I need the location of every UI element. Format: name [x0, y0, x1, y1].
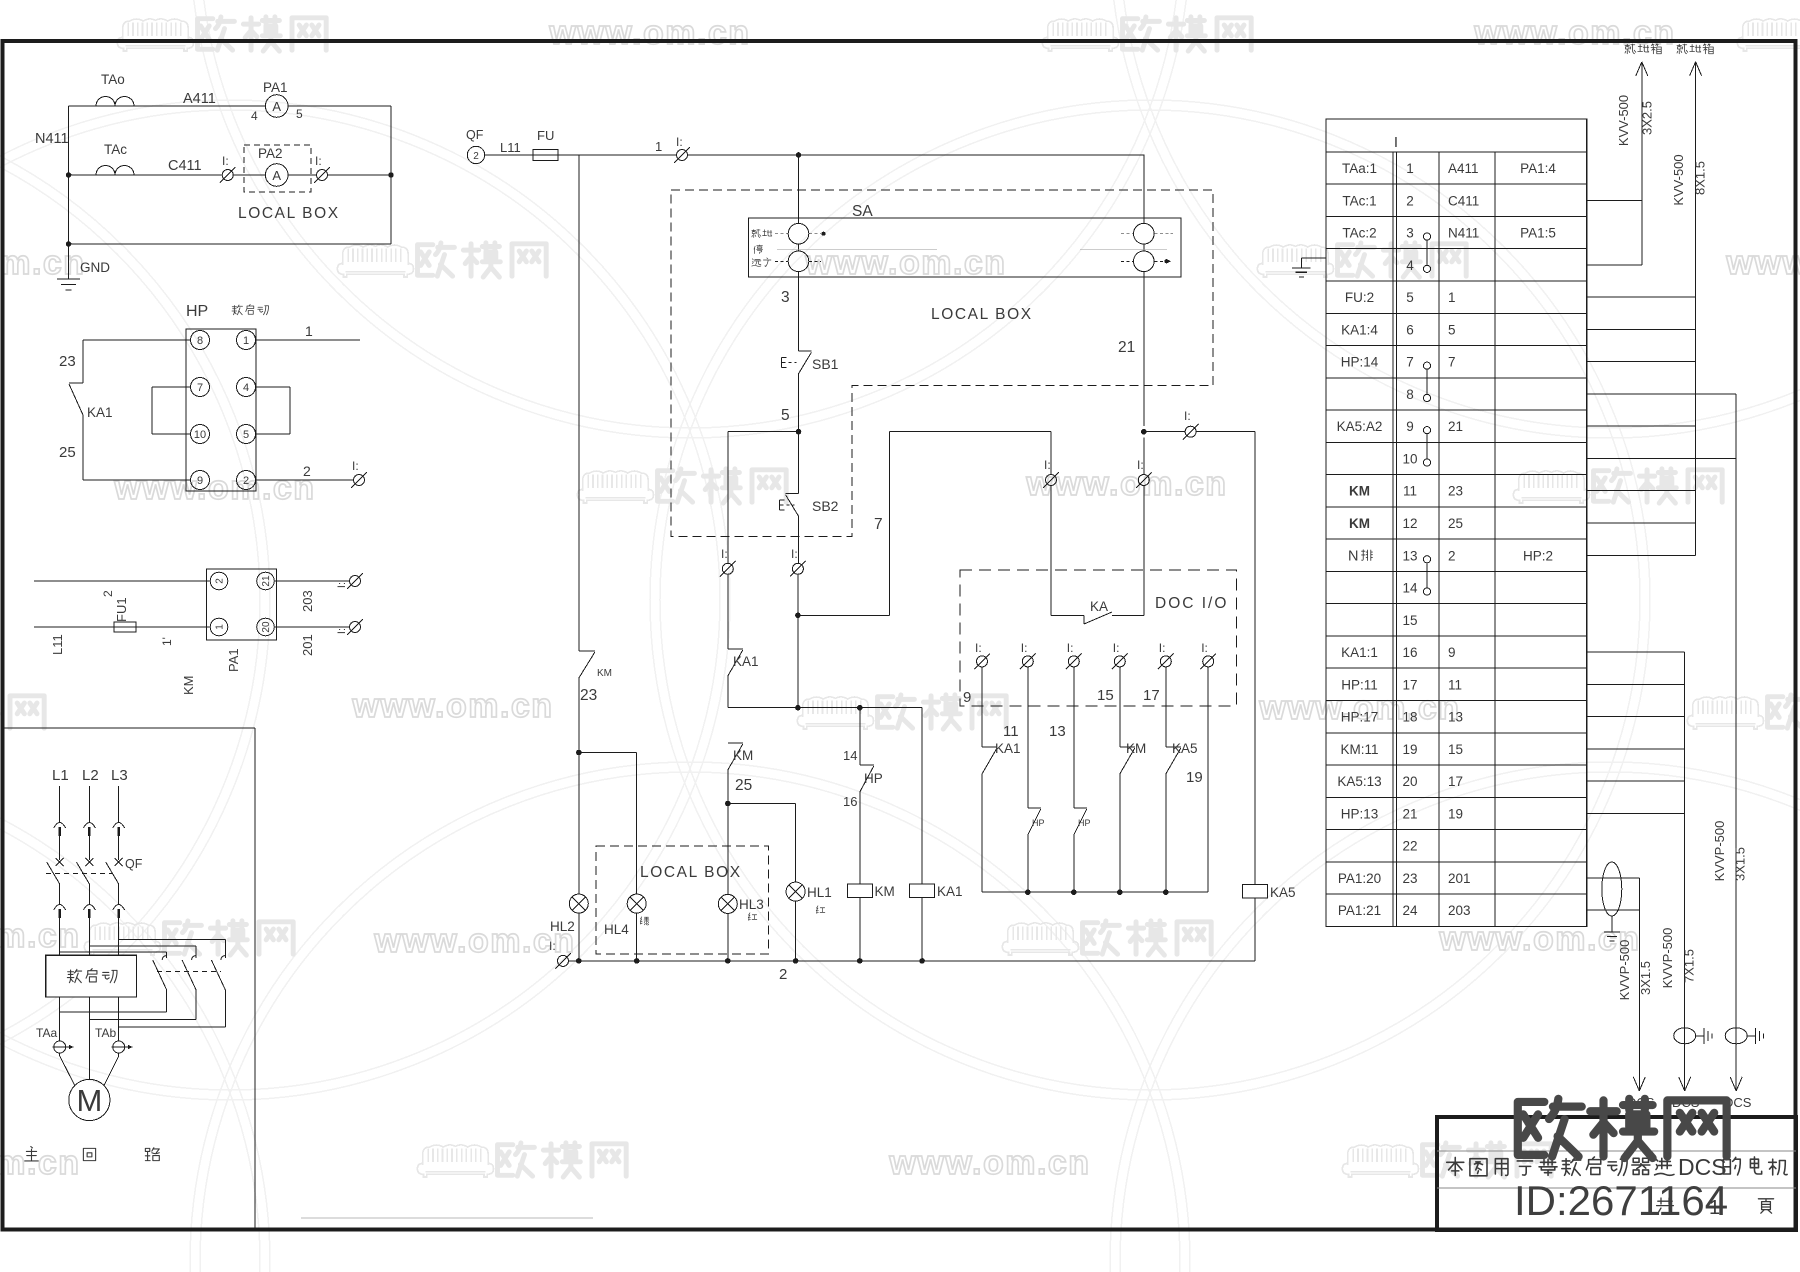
svg-text:KA1: KA1 [87, 405, 113, 420]
svg-text:4: 4 [251, 109, 258, 123]
wire A411 top [69, 105, 96, 107]
svg-text:KA1: KA1 [937, 884, 963, 899]
svg-text:12: 12 [1402, 516, 1417, 531]
svg-text:23: 23 [1448, 484, 1463, 499]
svg-text:8: 8 [197, 335, 203, 347]
svg-text:PA1:5: PA1:5 [1520, 226, 1556, 241]
svg-text:KVVP-500: KVVP-500 [1660, 928, 1675, 989]
SA labels [752, 229, 761, 237]
svg-text:HL1: HL1 [807, 885, 832, 900]
table ground [1301, 257, 1326, 259]
table row 9 [1326, 441, 1587, 443]
svg-text:QF: QF [466, 128, 484, 142]
svg-text:N411: N411 [35, 131, 69, 147]
pin 8 [191, 331, 210, 350]
svg-text:8: 8 [1406, 387, 1414, 402]
col1 KA1 contact [981, 667, 983, 747]
svg-text:15: 15 [1448, 742, 1463, 757]
svg-text:I:: I: [721, 547, 728, 561]
svg-text:18: 18 [1402, 710, 1417, 725]
svg-text:www.om.cn: www.om.cn [373, 922, 575, 960]
svg-text:23: 23 [580, 687, 597, 704]
table row 4 [1326, 280, 1587, 282]
col4 KM contact [1119, 667, 1121, 747]
svg-text:I:: I: [222, 154, 229, 168]
svg-text:11: 11 [1403, 484, 1417, 499]
KA5 branch vertical [1254, 432, 1256, 885]
DOC I/O dashed box [960, 570, 1236, 706]
SA left circles [798, 155, 800, 223]
table row 1 [1326, 183, 1587, 185]
svg-text:HP:2: HP:2 [1523, 548, 1553, 563]
terminal to KA5 branch [1144, 431, 1185, 433]
col3 HP contact [1073, 667, 1075, 808]
terminal x798 [790, 561, 806, 577]
wire7 branch right [797, 574, 799, 615]
svg-text:KM: KM [181, 676, 196, 696]
svg-text:I:: I: [975, 641, 982, 655]
svg-text:19: 19 [1186, 769, 1203, 786]
motor M [69, 1079, 110, 1120]
svg-text:201: 201 [300, 634, 315, 656]
svg-text:3: 3 [1406, 226, 1414, 241]
svg-text:3: 3 [781, 289, 790, 306]
svg-text:www.om.cn: www.om.cn [113, 469, 315, 507]
wire C411 [69, 174, 96, 176]
dark omw watermark [1518, 1099, 1582, 1157]
terminal 201 [347, 619, 363, 635]
svg-text:ID:2671164: ID:2671164 [1514, 1177, 1728, 1224]
svg-text:20: 20 [261, 621, 272, 633]
table row 21 [1326, 829, 1587, 831]
svg-text:23: 23 [59, 353, 76, 370]
svg-text:www.om.cn: www.om.cn [1025, 465, 1227, 503]
svg-text:HL4: HL4 [604, 922, 629, 937]
svg-text:FU:2: FU:2 [1345, 290, 1374, 305]
svg-text:KA: KA [1090, 599, 1108, 614]
KVVP trunk3 (top 3X1.5) [1587, 393, 1736, 395]
svg-text:25: 25 [735, 777, 752, 794]
svg-text:LOCAL BOX: LOCAL BOX [640, 864, 742, 881]
svg-text:KVVP-500: KVVP-500 [1712, 821, 1727, 882]
svg-text:KM: KM [1126, 741, 1146, 756]
col5 KA5 contact [1165, 667, 1167, 747]
pin 1 [237, 331, 256, 350]
pole L1 [59, 786, 61, 822]
svg-text:17: 17 [1448, 774, 1463, 789]
SA right circles [1143, 155, 1145, 223]
ammeter PA1 [265, 95, 288, 118]
table row 5 [1326, 312, 1587, 314]
pin 5 [237, 425, 256, 444]
bypass branch 3 [119, 939, 226, 941]
svg-text:I:: I: [336, 628, 348, 634]
svg-text:I:: I: [549, 939, 556, 953]
wire 21 from SA right [1143, 272, 1145, 427]
table row 22 [1326, 861, 1587, 863]
table row 11 [1326, 506, 1587, 508]
loop 4-5 [256, 386, 291, 388]
wire7 into DOC [1050, 432, 1052, 475]
svg-text:LOCAL BOX: LOCAL BOX [238, 205, 340, 222]
KA contact [1051, 614, 1084, 616]
table row 16 [1326, 667, 1587, 669]
table row 10 [1326, 474, 1587, 476]
terminal left of PA2 [220, 167, 236, 183]
svg-text:SA: SA [852, 203, 873, 220]
KA1 contact [727, 574, 729, 649]
svg-text:www.om.cn: www.om.cn [548, 14, 750, 52]
svg-text:17: 17 [1402, 677, 1417, 692]
svg-text:5: 5 [1448, 322, 1456, 337]
lamp HL4 [627, 894, 646, 913]
svg-text:19: 19 [1402, 742, 1417, 757]
QF blade pole 3 [106, 862, 119, 884]
svg-text:TAa: TAa [36, 1026, 57, 1040]
ammeter PA2 [265, 164, 288, 187]
LOCAL BOX dashed outline [671, 190, 1213, 537]
svg-text:HP:17: HP:17 [1341, 710, 1379, 725]
QF linkage dashed [46, 873, 113, 875]
svg-text:www.om.cn: www.om.cn [351, 687, 553, 725]
terminal table frame [1326, 119, 1587, 926]
svg-text:KA1: KA1 [733, 654, 759, 669]
svg-text:7: 7 [874, 516, 883, 533]
PA2 local box dashed [244, 145, 311, 192]
svg-text:25: 25 [1448, 516, 1463, 531]
svg-text:TAc: TAc [104, 142, 127, 157]
svg-text:9: 9 [1448, 645, 1456, 660]
svg-text:I:: I: [1184, 409, 1191, 423]
svg-text:TAc:2: TAc:2 [1342, 226, 1376, 241]
pin 2 [237, 471, 256, 490]
svg-text:HP:11: HP:11 [1341, 677, 1378, 692]
shield ellipses bottom [1674, 1028, 1696, 1044]
bottom bus [569, 960, 1256, 962]
lamp HL1 [786, 882, 805, 901]
svg-text:5: 5 [296, 107, 303, 121]
svg-text:I: I [1394, 134, 1398, 151]
svg-text:SB1: SB1 [812, 356, 839, 372]
svg-text:SB2: SB2 [812, 498, 839, 514]
QF aux source [467, 146, 484, 163]
svg-text:L3: L3 [111, 767, 128, 784]
svg-text:13: 13 [1049, 723, 1066, 740]
pin 20 [257, 618, 275, 636]
label 主回路 [25, 1147, 39, 1161]
col6 plain wire19 [1207, 667, 1209, 892]
svg-text:1: 1 [1709, 1197, 1720, 1219]
svg-text:TAc:1: TAc:1 [1342, 193, 1376, 208]
wires to terminals [274, 580, 349, 582]
KVV trunk2 (8X1.5) [1587, 296, 1696, 298]
junction row y=707.7 [728, 707, 922, 709]
svg-text:1: 1 [655, 139, 662, 154]
fuse FU1 [114, 622, 136, 632]
svg-text:21: 21 [261, 575, 272, 587]
table row 20 [1326, 796, 1587, 798]
GND [68, 244, 70, 279]
svg-text:A411: A411 [1448, 161, 1479, 176]
svg-text:14: 14 [1402, 581, 1418, 596]
node N411 (left vertical) [68, 106, 70, 244]
svg-text:PA1: PA1 [226, 648, 241, 672]
svg-text:www.om.cn: www.om.cn [0, 917, 81, 955]
title block [1437, 1117, 1796, 1230]
bypass branch 2 [89, 945, 196, 947]
svg-text:KVV-500: KVV-500 [1616, 95, 1631, 146]
lamp HL2 [569, 894, 588, 913]
svg-text:21: 21 [1118, 339, 1135, 356]
svg-text:11: 11 [1448, 677, 1462, 692]
DOC bottom bus [982, 891, 1208, 893]
svg-text:www.om.cn: www.om.cn [888, 1144, 1090, 1182]
svg-text:KA5:13: KA5:13 [1337, 774, 1381, 789]
svg-text:KVVP-500: KVVP-500 [1617, 940, 1632, 1001]
bypass branch 1 [60, 951, 167, 953]
svg-text:6: 6 [1406, 322, 1414, 337]
svg-text:KM: KM [1349, 484, 1370, 499]
svg-text:www.om.cn: www.om.cn [0, 244, 86, 282]
KA5 coil [1243, 885, 1268, 899]
svg-text:www.om.cn: www.om.cn [1473, 14, 1675, 52]
svg-text:8X1.5: 8X1.5 [1693, 161, 1708, 195]
pin 9 [191, 471, 210, 490]
svg-text:2: 2 [1406, 193, 1414, 208]
svg-text:PA1: PA1 [263, 80, 288, 95]
CT TAc [96, 166, 134, 176]
svg-text:KM: KM [875, 884, 895, 899]
svg-text:DOC I/O: DOC I/O [1155, 595, 1228, 612]
svg-text:203: 203 [1448, 903, 1471, 918]
svg-text:21: 21 [1448, 419, 1463, 434]
svg-text:7: 7 [197, 382, 203, 394]
table row 3 [1326, 248, 1587, 250]
pin 1 [210, 618, 228, 636]
svg-text:I:: I: [1021, 641, 1028, 655]
svg-text:5: 5 [781, 407, 790, 424]
motor leads [59, 1053, 61, 1056]
svg-text:HL2: HL2 [550, 919, 575, 934]
svg-text:L11: L11 [500, 140, 521, 155]
svg-text:4: 4 [243, 382, 249, 394]
bottom wire [69, 243, 391, 245]
main-circuit box [3, 727, 256, 729]
pin 21 [257, 572, 275, 590]
HP aux branch [859, 708, 861, 765]
QF blade pole 1 [47, 862, 60, 884]
table row 24 [1326, 925, 1587, 927]
svg-text:QF: QF [125, 857, 143, 871]
table row 18 [1326, 732, 1587, 734]
svg-text:FU1: FU1 [114, 597, 129, 622]
svg-text:5: 5 [243, 429, 249, 441]
svg-text:KM: KM [1349, 516, 1370, 531]
wire 3 / SB1 [798, 272, 800, 352]
HL3 column [727, 804, 729, 895]
pole continuations [59, 997, 61, 1041]
svg-text:3X2.5: 3X2.5 [1640, 101, 1655, 135]
svg-text:LOCAL BOX: LOCAL BOX [931, 306, 1033, 323]
svg-text:GND: GND [80, 260, 110, 275]
branch to 727.8 [728, 431, 799, 433]
pole L2 [88, 786, 90, 822]
svg-text:HP: HP [1032, 818, 1045, 828]
PA1 connector box [207, 569, 277, 640]
wire 2 from pin2 + terminal [256, 479, 354, 481]
svg-text:21: 21 [1402, 806, 1417, 821]
svg-text:13: 13 [1402, 548, 1417, 563]
shield ellipse trunk-a [1602, 862, 1622, 916]
col2 HP contact [1027, 667, 1029, 808]
svg-text:19: 19 [1448, 806, 1463, 821]
terminal x727 [720, 561, 736, 577]
svg-text:HP: HP [186, 303, 208, 320]
table row 8 [1326, 409, 1587, 411]
table row 12 [1326, 538, 1587, 540]
svg-text:www.om.cn: www.om.cn [0, 1144, 81, 1182]
rotated block wires [34, 580, 210, 582]
KA1 coil branch [921, 708, 923, 884]
table row 7 [1326, 377, 1587, 379]
svg-text:7: 7 [1406, 355, 1414, 370]
svg-text:KM:11: KM:11 [1340, 742, 1378, 757]
svg-text:1: 1 [215, 624, 226, 630]
svg-text:15: 15 [1402, 613, 1417, 628]
svg-text:www.om.cn: www.om.cn [1725, 244, 1800, 282]
svg-text:9: 9 [1406, 419, 1414, 434]
table row 17 [1326, 699, 1587, 701]
pin 10 [191, 425, 210, 444]
svg-text:A: A [272, 99, 281, 114]
svg-text:16: 16 [1402, 645, 1417, 660]
svg-text:201: 201 [1448, 871, 1471, 886]
wire21 down [1143, 437, 1145, 474]
svg-text:I:: I: [676, 135, 683, 149]
svg-text:20: 20 [1402, 774, 1417, 789]
fuse FU [533, 149, 558, 160]
svg-text:TAb: TAb [95, 1026, 116, 1040]
svg-text:L11: L11 [50, 634, 65, 655]
QF blade pole 2 [76, 862, 89, 884]
svg-text:I:: I: [352, 459, 359, 473]
svg-text:203: 203 [300, 590, 315, 612]
wire 2 terminal [555, 953, 571, 969]
svg-text:I:: I: [1067, 641, 1074, 655]
svg-text:KM: KM [597, 668, 612, 679]
svg-text:11: 11 [1003, 723, 1019, 740]
svg-text:22: 22 [1402, 839, 1417, 854]
svg-text:9: 9 [963, 689, 971, 706]
CT TAo [96, 97, 134, 107]
svg-text:A411: A411 [183, 91, 216, 107]
table row 23 [1326, 893, 1587, 895]
SA left dashes/dots [775, 233, 788, 235]
svg-text:3X1.5: 3X1.5 [1638, 961, 1653, 995]
table row 19 [1326, 764, 1587, 766]
svg-text:PA1:4: PA1:4 [1520, 161, 1556, 176]
svg-text:I:: I: [315, 154, 322, 168]
KA1 contact (left column) [82, 340, 84, 383]
loop 7-10 [152, 386, 191, 388]
svg-text:KM: KM [733, 748, 753, 763]
svg-text:13: 13 [1448, 710, 1463, 725]
svg-text:TAo: TAo [101, 72, 125, 87]
svg-text:7X1.5: 7X1.5 [1682, 949, 1697, 983]
KVV trunk1 (3X2.5) [1587, 199, 1642, 201]
svg-text:HP: HP [1078, 818, 1091, 828]
table row 6 [1326, 345, 1587, 347]
branch to HL1 [728, 803, 796, 805]
svg-text:A: A [272, 168, 281, 183]
svg-text:2: 2 [779, 966, 787, 983]
svg-text:3X1.5: 3X1.5 [1733, 847, 1748, 881]
terminal 203 [347, 573, 363, 589]
svg-text:25: 25 [59, 444, 76, 461]
svg-text:KA1:4: KA1:4 [1341, 322, 1378, 337]
pole L3 [118, 786, 120, 822]
svg-text:N411: N411 [1448, 226, 1479, 241]
svg-text:15: 15 [1097, 687, 1114, 704]
svg-text:1: 1 [1406, 161, 1414, 176]
svg-text:1': 1' [160, 637, 174, 646]
table row 2 [1326, 215, 1587, 217]
lamp HL3 [718, 894, 737, 913]
table row 14 [1326, 603, 1587, 605]
watermarks [117, 19, 193, 51]
svg-text:23: 23 [1402, 871, 1417, 886]
svg-text:HP:13: HP:13 [1341, 806, 1379, 821]
terminal wire1 [674, 147, 690, 163]
svg-text:2: 2 [303, 463, 311, 479]
svg-text:KA5: KA5 [1270, 885, 1296, 900]
DCS arrows [1633, 1077, 1645, 1091]
KVVP trunk-b (rows16-21 DCS) [1587, 651, 1685, 653]
svg-text:2: 2 [1448, 548, 1456, 563]
svg-text:14: 14 [843, 748, 857, 763]
svg-text:10: 10 [194, 429, 206, 441]
svg-text:I:: I: [1044, 458, 1051, 472]
svg-text:M: M [76, 1083, 102, 1118]
svg-text:L1: L1 [52, 767, 69, 784]
pin 7 [191, 378, 210, 397]
svg-text:9: 9 [197, 475, 203, 487]
KM NC x579 [578, 155, 580, 651]
svg-text:1: 1 [305, 323, 313, 339]
svg-text:L2: L2 [82, 767, 99, 784]
DOC terminals [974, 654, 990, 670]
svg-text:1: 1 [243, 335, 249, 347]
svg-text:N: N [1348, 548, 1358, 564]
KVVP trunk-a (rows23/24 DCS) [1587, 877, 1640, 879]
CT TAa [54, 1041, 66, 1053]
wire to pin9 [83, 479, 191, 481]
SB2 [798, 432, 800, 494]
svg-text:17: 17 [1143, 687, 1160, 704]
svg-text:5: 5 [1406, 290, 1414, 305]
svg-text:16: 16 [843, 794, 857, 809]
svg-text:2: 2 [473, 151, 479, 162]
wire from pin1 (1) [256, 339, 361, 341]
terminal right of PA2 [314, 167, 330, 183]
LOCAL BOX lamps dashed [596, 846, 769, 954]
svg-text:PA1:20: PA1:20 [1338, 871, 1381, 886]
bypass linkage dashed [157, 971, 221, 973]
pin 4 [237, 378, 256, 397]
wire 5 [798, 374, 800, 432]
svg-text:I:: I: [336, 582, 348, 588]
svg-text:10: 10 [1402, 451, 1417, 466]
